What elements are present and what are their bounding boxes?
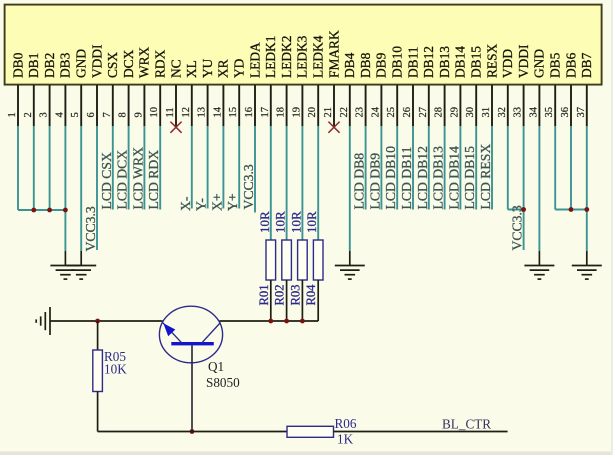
svg-text:DB14: DB14 [453,46,468,78]
svg-text:LCD RESX: LCD RESX [478,144,493,210]
wire: pin 10 [159,126,161,210]
junction dot pin4 bus [63,208,68,213]
svg-text:DCX: DCX [121,49,136,78]
svg-text:VDDI: VDDI [516,45,531,78]
svg-text:DB5: DB5 [548,52,563,78]
net label LCD DB14 [446,146,461,210]
designator label R01 [257,285,271,306]
svg-text:30: 30 [465,107,476,118]
net label LCD DB10 [383,146,398,210]
svg-text:10R: 10R [304,211,319,233]
wire: R03 to collector line [301,280,303,321]
value label 1K [337,432,354,447]
no-connect X mark pin 21 FMARK [328,122,339,133]
wire: pin 32 VDD to VCC3.3 junction [508,126,524,210]
svg-text:R06: R06 [335,416,357,431]
designator label R03 [288,285,302,306]
svg-text:23: 23 [355,107,366,118]
wire: pin 27 [428,126,430,210]
wire: pin 7 [112,126,114,210]
svg-text:DB6: DB6 [563,52,578,78]
svg-text:34: 34 [528,106,539,117]
designator label Q1 [208,359,224,374]
svg-text:VCC3.3: VCC3.3 [510,205,525,250]
svg-text:DB8: DB8 [358,52,373,78]
svg-text:DB11: DB11 [405,47,420,79]
svg-text:14: 14 [212,106,223,117]
pin 25 (DB10) [386,46,404,126]
svg-text:13: 13 [197,107,208,118]
svg-text:17: 17 [260,107,271,118]
net label LCD DB8 [352,153,367,210]
svg-text:12: 12 [181,107,192,118]
svg-text:8: 8 [118,112,129,117]
value label 10K [104,362,127,377]
svg-text:LCD DB10: LCD DB10 [383,146,398,210]
net label Y- [194,198,209,211]
wire: R01 to collector line [270,280,272,321]
svg-text:21: 21 [323,107,334,118]
svg-text:DB4: DB4 [342,52,357,78]
pin 8 (DCX) [118,49,136,126]
svg-text:31: 31 [481,107,492,118]
svg-text:LEDK2: LEDK2 [279,36,294,78]
ground symbol (pin 5) [66,251,96,279]
pin 15 (YD) [228,58,246,126]
svg-text:LCD CSX: LCD CSX [99,152,114,210]
ground symbol (DB0-DB3 bus) [50,251,80,279]
svg-text:10: 10 [149,107,160,118]
svg-text:RDX: RDX [153,49,168,78]
svg-text:WRX: WRX [137,46,152,78]
svg-text:LCD WRX: LCD WRX [130,147,145,210]
svg-text:DB1: DB1 [26,53,41,78]
svg-text:5: 5 [70,112,81,117]
svg-text:LCD DB9: LCD DB9 [367,153,382,210]
svg-text:DB7: DB7 [579,52,594,78]
svg-text:19: 19 [291,107,302,118]
svg-text:DB2: DB2 [42,53,57,78]
wire: pin 9 [143,126,145,210]
svg-text:16: 16 [244,107,255,118]
wire: pin 30 [475,126,477,210]
svg-text:LCD DB15: LCD DB15 [462,146,477,210]
svg-text:LCD DB14: LCD DB14 [446,146,461,210]
transistor Q1 base bar [171,342,214,345]
wire: pin 22 DB4 to ground [349,126,351,251]
wire: bottom rail left (R05 to R06) [98,431,287,433]
wire: DB0-DB3 bus (pins 1-4) to GND [18,126,65,251]
resistor R06 body [287,426,334,437]
resistor R04 body [313,240,323,280]
pin 19 (LEDK3) [291,35,309,126]
svg-text:NC: NC [168,59,183,78]
wire: pin 29 [459,126,461,210]
connector CON1 (37-pin LCD interface) body [5,5,602,85]
svg-text:10R: 10R [273,211,288,233]
pin 7 (CSX) [102,52,120,126]
svg-text:27: 27 [418,107,429,118]
wire: pin 5 GND [80,126,82,251]
resistor R02 body [282,240,292,280]
svg-text:FMARK: FMARK [326,30,341,78]
svg-text:R02: R02 [273,285,287,306]
svg-text:DB15: DB15 [469,46,484,78]
pin 16 (LEDA) [244,42,262,126]
net label LCD DB12 [415,146,430,210]
transistor Q1 circle [159,306,222,363]
svg-text:33: 33 [513,107,524,118]
resistor R05 body [93,350,103,392]
pin 37 (DB7) [576,52,594,126]
net label LCD WRX [130,147,145,210]
net label LCD DCX [115,150,130,210]
ground symbol (pin 34) [524,251,554,279]
wire: pin 28 [444,126,446,210]
net label LCD RDX [146,150,161,210]
svg-text:CSX: CSX [105,52,120,78]
junction dot pin 33 [521,207,526,212]
pin 26 (DB11) [402,47,420,127]
junction dot pin3 bus [47,208,52,213]
value label 10R (R02) [273,211,288,233]
svg-text:LCD DB13: LCD DB13 [431,146,446,210]
svg-text:1: 1 [7,112,18,117]
wire: pin 24 [380,126,382,210]
pin 12 (XL) [181,60,199,126]
wire: R05 top lead [97,321,99,350]
svg-text:LCD DB11: LCD DB11 [399,146,414,209]
svg-text:LCD DB12: LCD DB12 [415,146,430,210]
wire: pin 33 VDDI [523,126,525,250]
pin 6 (VDDI) [86,45,104,126]
svg-text:VDD: VDD [500,49,515,78]
wire: emitter line ground to Q1 [50,320,163,322]
net label VCC3.3 (pin 33) [510,205,525,250]
net label X+ [209,193,224,211]
pin 13 (YU) [197,58,215,126]
pin 34 (GND) [528,49,546,126]
svg-text:4: 4 [54,112,65,118]
svg-text:GND: GND [532,49,547,78]
designator label R04 [304,284,318,306]
pin 23 (DB8) [355,52,373,126]
svg-text:X-: X- [178,196,193,211]
ground symbol (pin 22) [335,251,365,279]
svg-text:10R: 10R [288,211,303,233]
svg-text:22: 22 [339,107,350,118]
svg-text:7: 7 [102,112,113,117]
svg-text:VCC3.3: VCC3.3 [83,206,98,251]
svg-text:DB10: DB10 [390,46,405,78]
wire: R02 to collector line [286,280,288,321]
resistor R01 body [266,240,276,280]
wire: pin 34 GND [538,126,540,251]
wire: pin 12 [191,126,193,209]
wire: pin 20 LEDK4 to resistor [317,126,319,240]
svg-text:Q1: Q1 [208,359,224,374]
svg-text:LCD DB8: LCD DB8 [352,153,367,210]
wire: pin 25 [396,126,398,210]
svg-text:R01: R01 [257,285,271,306]
svg-text:Y+: Y+ [225,193,240,211]
svg-text:DB0: DB0 [10,52,25,78]
wire: pin 15 [238,126,240,209]
svg-text:9: 9 [133,112,144,117]
svg-text:25: 25 [386,107,397,118]
svg-text:10R: 10R [257,211,272,233]
pin 24 (DB9) [370,52,388,126]
svg-text:LEDK1: LEDK1 [263,36,278,78]
wire: pin 19 LEDK3 to resistor [301,126,303,240]
svg-text:DB12: DB12 [421,46,436,78]
svg-text:32: 32 [497,107,508,118]
pin 27 (DB12) [418,46,436,126]
pin 9 (WRX) [133,46,151,126]
svg-text:LEDK3: LEDK3 [295,35,310,78]
pin 5 (GND) [70,49,88,126]
ground symbol (emitter, left-facing) [36,307,50,335]
pin 18 (LEDK2) [276,36,294,126]
net label VCC3.3 (pin 16) [241,164,256,209]
value label S8050 [206,375,240,390]
svg-text:BL_CTR: BL_CTR [442,417,491,432]
net label VCC3.3 (pin 6) [83,206,98,251]
svg-text:LEDA: LEDA [247,42,262,78]
wire: pin 16 LEDA to VCC3.3 [254,126,256,213]
junction dot pin 37 [584,207,589,212]
pin 33 (VDDI) [513,45,531,126]
svg-text:28: 28 [434,107,445,118]
pin 35 (DB5) [544,52,562,126]
value label 10R (R04) [304,211,319,233]
junction dot R01 [268,319,273,324]
svg-text:YD: YD [232,58,247,78]
svg-text:R04: R04 [304,284,318,306]
designator label R06 [335,416,357,431]
wire: pin 13 [207,126,209,209]
wire: pin 23 [365,126,367,210]
net label LCD CSX [99,152,114,210]
pin 14 (XR) [212,59,230,126]
svg-text:35: 35 [544,107,555,118]
svg-text:15: 15 [228,107,239,118]
value label 10R (R01) [257,211,272,233]
svg-text:24: 24 [370,106,381,117]
net label LCD DB9 [367,153,382,210]
junction dot R05 top [95,319,100,324]
wire: pin 31 [491,126,493,210]
wire: pin 26 [412,126,414,210]
svg-text:11: 11 [165,107,176,117]
svg-text:20: 20 [307,107,318,118]
pin 2 (DB1) [23,53,41,126]
pin 29 (DB14) [449,46,467,126]
pin 20 (LEDK4) [307,35,325,126]
wire: Q1 base down to bottom rail [191,345,193,431]
wire: DB5-DB7 bus (pins 35-37) [555,126,587,251]
svg-text:LCD RDX: LCD RDX [146,150,161,210]
svg-text:RESX: RESX [484,43,499,78]
net label LCD RESX [478,144,493,210]
wire: R04 to collector line [317,280,319,321]
pin 21 (FMARK) [323,30,341,126]
svg-text:1K: 1K [337,432,354,447]
svg-text:36: 36 [560,107,571,118]
designator label R02 [273,285,287,306]
svg-text:LCD DCX: LCD DCX [115,150,130,210]
svg-text:18: 18 [276,107,287,118]
pin 11 (NC) [165,59,183,126]
svg-text:6: 6 [86,112,97,117]
net label LCD DB15 [462,146,477,210]
svg-text:29: 29 [449,107,460,118]
junction dot base / bottom rail [190,429,195,434]
pin 3 (DB2) [39,53,57,126]
wire: pin 17 LEDK1 to resistor [270,126,272,240]
transistor Q1 emitter with arrow [162,322,182,343]
net label Y+ [225,193,240,211]
svg-text:GND: GND [74,49,89,78]
svg-text:Y-: Y- [194,198,209,211]
wire: pin 6 VDDI to VCC3.3 [96,126,98,250]
svg-text:37: 37 [576,107,587,118]
net label LCD DB11 [399,146,414,209]
svg-text:10K: 10K [104,362,127,377]
svg-text:YU: YU [200,58,215,78]
wire: pin 18 LEDK2 to resistor [286,126,288,240]
junction dot pin 36 [569,207,574,212]
svg-text:R03: R03 [288,285,302,306]
svg-text:DB13: DB13 [437,46,452,78]
wire: pin 14 [222,126,224,209]
transistor Q1 collector line [202,323,221,344]
svg-text:3: 3 [39,112,50,117]
wire: R05 bottom lead to bottom rail [97,392,99,432]
junction dot R03 [300,319,305,324]
pin 28 (DB13) [434,46,452,126]
svg-text:VCC3.3: VCC3.3 [241,164,256,209]
no-connect X mark pin 11 NC [170,122,181,133]
svg-text:DB9: DB9 [374,52,389,78]
net label X- [178,196,193,211]
pin 22 (DB4) [339,52,357,126]
wire: collector to resistor rail [220,320,319,322]
svg-text:S8050: S8050 [206,375,240,390]
svg-text:2: 2 [23,112,34,117]
junction dot R02 [284,319,289,324]
svg-text:VDDI: VDDI [89,45,104,78]
net label LCD DB13 [431,146,446,210]
pin 17 (LEDK1) [260,36,278,126]
pin 32 (VDD) [497,49,515,126]
pin 4 (DB3) [54,52,72,126]
wire: R06 to BL_CTR [334,431,508,433]
value label 10R (R03) [288,211,303,233]
junction dot pin2 bus [31,208,36,213]
pin 36 (DB6) [560,52,578,126]
svg-text:XL: XL [184,60,199,78]
svg-text:LEDK4: LEDK4 [311,35,326,78]
pin 10 (RDX) [149,49,167,126]
pin 30 (DB15) [465,46,483,126]
designator label R05 [104,349,126,364]
pin 31 (RESX) [481,43,499,126]
svg-text:26: 26 [402,107,413,118]
ground symbol (pin 37) [572,251,602,279]
wire: pin 8 [128,126,130,210]
svg-text:XR: XR [216,59,231,78]
svg-text:DB3: DB3 [58,52,73,78]
resistor R03 body [298,240,308,280]
pin 1 (DB0) [7,52,25,126]
net label BL_CTR [442,417,491,432]
svg-text:X+: X+ [209,193,224,211]
